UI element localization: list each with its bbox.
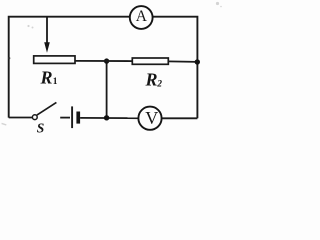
svg-text:1: 1 [53,77,58,87]
svg-text:R: R [145,70,158,90]
svg-text:R: R [40,68,53,88]
svg-text:A: A [136,8,148,25]
svg-text:V: V [145,108,158,128]
svg-text:2: 2 [156,80,162,90]
svg-text:S: S [37,121,45,136]
